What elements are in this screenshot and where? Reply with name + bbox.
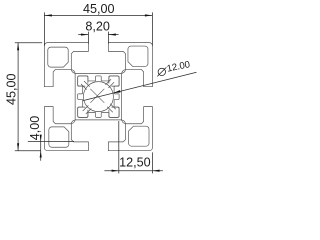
svg-text:4,00: 4,00 xyxy=(28,116,42,141)
svg-text:45,00: 45,00 xyxy=(4,74,18,106)
svg-text:45,00: 45,00 xyxy=(83,2,115,16)
svg-text:12,50: 12,50 xyxy=(119,155,151,169)
svg-text:8,20: 8,20 xyxy=(85,19,110,33)
